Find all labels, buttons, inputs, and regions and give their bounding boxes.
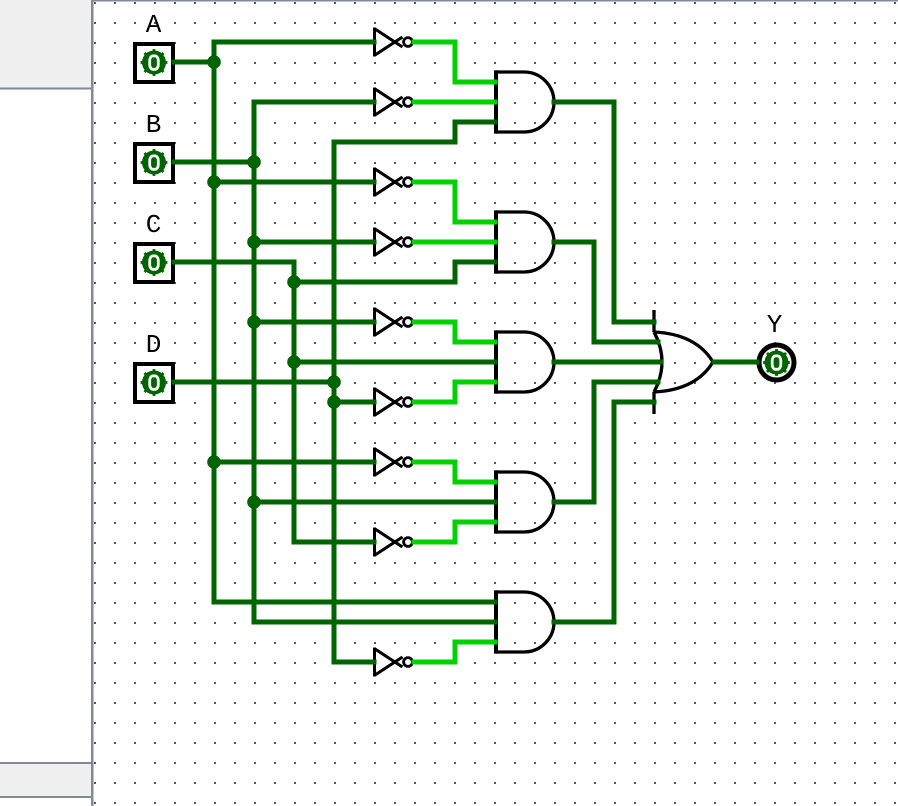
wire pin D to bus D <box>174 380 334 385</box>
wire OR output to pin Y <box>714 360 757 365</box>
wire node B y242 to NOT4 <box>254 240 374 245</box>
junction bus A / pin A <box>207 55 221 69</box>
wire node B y322 to NOT5 <box>254 320 374 325</box>
NOT gate U8 (inverts C, row 542) <box>375 528 413 557</box>
input pin C body <box>135 244 173 282</box>
wire AND1 output to OR input1 <box>554 102 654 322</box>
canvas top border <box>94 0 898 2</box>
AND gate G3 (row 362) <box>496 330 554 393</box>
svg-text:A: A <box>146 10 162 40</box>
input pin B body <box>135 144 173 182</box>
NOT gate U2 (inverts B, row 102) <box>375 88 413 117</box>
wire NOT2 output to AND1 input2 <box>414 100 495 105</box>
wire bus A: corner to NOT1, vertical, corner to AND5 input1 <box>214 42 495 602</box>
wire node B y502 to AND4 input2 <box>254 500 495 505</box>
wire AND5 output to OR input5 <box>554 402 654 622</box>
junctions <box>207 55 341 509</box>
junction bus B / pin B <box>247 155 261 169</box>
wire NOT8 output step to AND4 input3 <box>414 522 495 542</box>
bright wires (value 1) from inverter outputs <box>414 42 495 662</box>
WIRES (value 0 = dark green), drawn over gates <box>174 42 757 662</box>
wire NOT3 output step to AND2 input1 <box>414 182 495 222</box>
wire node D y402 to NOT6 <box>334 400 374 405</box>
wire bus D: corner at y142, vertical, corner to NOT9 <box>334 142 455 662</box>
NOT gate U3 (inverts A, row 182) <box>375 168 413 197</box>
input pin B state 0 <box>141 149 168 176</box>
junction bus D / NOT6 feed <box>327 395 341 409</box>
NOT gate U1 (inverts A, row 42) <box>375 28 413 57</box>
input pin D state 0 <box>141 369 168 396</box>
junction bus A / NOT7 feed <box>207 455 221 469</box>
NOT gate U9 (inverts D, row 662) <box>375 648 413 677</box>
side panel top box <box>0 0 91 88</box>
input pin D body <box>135 364 173 402</box>
junction bus B / NOT4 feed <box>247 235 261 249</box>
wire NOT5 output step to AND3 input1 <box>414 322 495 342</box>
junction bus A / NOT3 feed <box>207 175 221 189</box>
vertical divider <box>91 0 94 806</box>
AND gate G1 (row 102) <box>496 70 554 133</box>
NOT gate U7 (inverts A, row 462) <box>375 448 413 477</box>
junction bus B / NOT5 feed <box>247 315 261 329</box>
junction bus B / AND4 feed <box>247 495 261 509</box>
wire node C y362 to AND3 input2 <box>294 360 495 365</box>
wire AND4 output to OR input4 <box>554 382 658 502</box>
NOT gate U4 (inverts B, row 242) <box>375 228 413 257</box>
input pin A body <box>135 44 173 82</box>
wire bus B: corner to NOT2, vertical, corner to AND5 input2 <box>254 102 495 622</box>
svg-text:D: D <box>146 330 162 360</box>
junction bus C / AND2 feed <box>287 275 301 289</box>
wire pin A to bus A <box>174 60 214 65</box>
junction bus C / AND3 feed <box>287 355 301 369</box>
wire NOT6 output step to AND3 input3 <box>414 382 495 402</box>
wire NOT9 output step to AND5 input3 <box>414 642 495 662</box>
wire pin C, bus C vertical, corner to NOT8 <box>174 262 374 542</box>
wire node A y182 to NOT3 <box>214 180 374 185</box>
side panel bottom band <box>0 762 91 764</box>
AND gate G4 (row 502) <box>496 470 554 533</box>
wire node C y282 step to AND2 input3 <box>294 262 495 282</box>
wire AND2 output to OR input2 <box>554 242 658 342</box>
wire pin B to bus B <box>174 160 254 165</box>
svg-text:B: B <box>146 110 162 140</box>
NOT gate U5 (inverts B, row 322) <box>375 308 413 337</box>
wire NOT4 output to AND2 input2 <box>414 240 495 245</box>
wire NOT7 output step to AND4 input1 <box>414 462 495 482</box>
wire node A y462 to NOT7 <box>214 460 374 465</box>
junction bus D / pin D <box>327 375 341 389</box>
wire step from D run down to AND1 input3 <box>455 122 495 142</box>
input pin C state 0 <box>141 249 168 276</box>
NOT gate U6 (inverts D, row 402) <box>375 388 413 417</box>
output pin Y state 0 <box>763 349 790 376</box>
AND gate G2 (row 242) <box>496 210 554 273</box>
wire AND3 output to OR input3 <box>554 360 661 365</box>
input pin A state 0 <box>141 49 168 76</box>
svg-text:Y: Y <box>767 310 783 340</box>
wire NOT1 output step to AND1 input1 <box>414 42 495 82</box>
svg-text:C: C <box>146 210 162 240</box>
output pin Y body <box>759 345 794 380</box>
AND gate G5 (row 622) <box>496 590 554 653</box>
OR gate G6 (5 inputs, output Y) <box>654 310 713 414</box>
